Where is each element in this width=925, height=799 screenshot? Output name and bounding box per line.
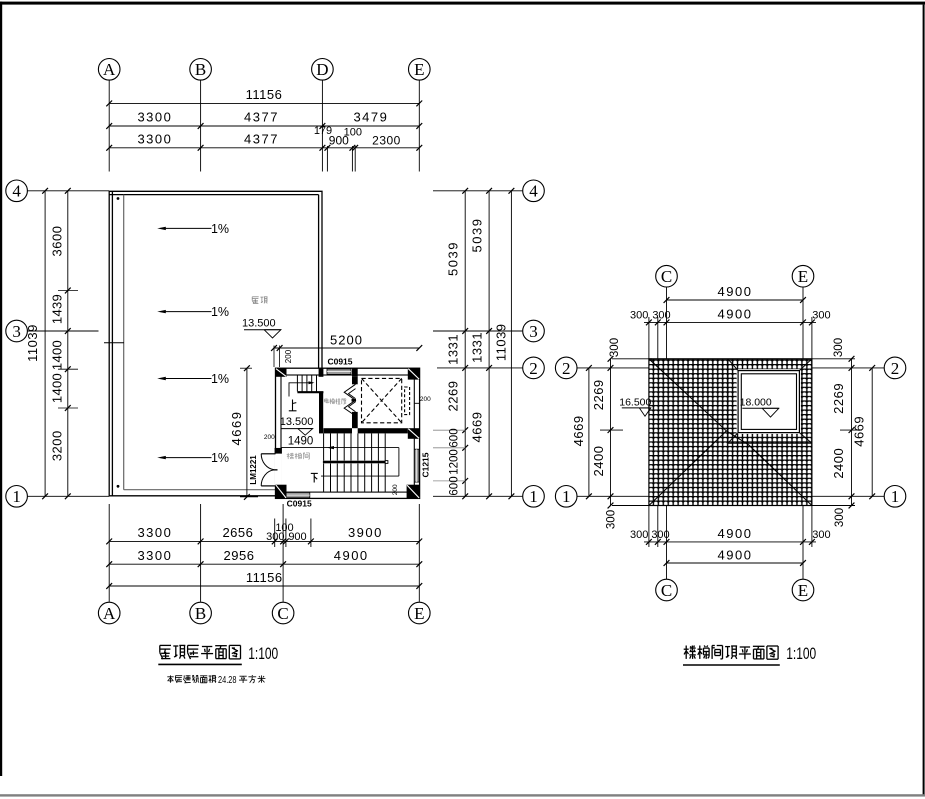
svg-text:4900: 4900 <box>718 306 753 321</box>
svg-text:300: 300 <box>834 508 846 527</box>
svg-text:1439: 1439 <box>50 294 65 324</box>
svg-text:11039: 11039 <box>494 323 509 361</box>
svg-text:E: E <box>414 60 424 79</box>
svg-text:600: 600 <box>449 428 461 447</box>
svg-text:1: 1 <box>891 487 900 506</box>
svg-text:1400: 1400 <box>50 340 65 370</box>
svg-text:900: 900 <box>329 134 349 148</box>
svg-text:1490: 1490 <box>288 436 314 448</box>
svg-text:24.28: 24.28 <box>218 674 237 686</box>
svg-text:300: 300 <box>630 529 648 541</box>
svg-text:300: 300 <box>609 338 621 357</box>
svg-text:E: E <box>798 581 808 600</box>
svg-text:1%: 1% <box>211 451 229 465</box>
svg-text:2956: 2956 <box>224 548 255 563</box>
svg-text:C: C <box>277 604 288 623</box>
svg-text:3300: 3300 <box>137 131 172 146</box>
svg-text:3300: 3300 <box>137 110 172 125</box>
svg-text:600: 600 <box>449 476 461 495</box>
svg-text:2269: 2269 <box>831 383 846 414</box>
svg-text:C: C <box>661 267 672 286</box>
svg-text:300: 300 <box>266 531 284 543</box>
svg-text:2400: 2400 <box>831 448 846 479</box>
svg-text:11039: 11039 <box>25 324 40 362</box>
svg-text:3600: 3600 <box>50 226 65 257</box>
svg-text:1200: 1200 <box>449 449 461 475</box>
svg-text:4669: 4669 <box>571 415 586 446</box>
svg-text:900: 900 <box>288 531 306 543</box>
svg-text:4900: 4900 <box>334 548 369 563</box>
svg-text:4377: 4377 <box>244 131 279 146</box>
svg-text:1: 1 <box>529 487 538 506</box>
svg-text::: : <box>215 674 218 684</box>
svg-text:11156: 11156 <box>246 570 283 585</box>
svg-text:B: B <box>195 60 206 79</box>
svg-text:300: 300 <box>812 309 830 321</box>
svg-text:2300: 2300 <box>372 134 401 148</box>
svg-text:1:100: 1:100 <box>786 644 816 663</box>
svg-text:200: 200 <box>284 349 293 363</box>
svg-text:3200: 3200 <box>50 430 65 461</box>
svg-text:4900: 4900 <box>718 284 753 299</box>
svg-text:3: 3 <box>12 322 21 341</box>
svg-text:300: 300 <box>812 529 830 541</box>
svg-text:2: 2 <box>562 359 571 378</box>
svg-text:5039: 5039 <box>469 218 484 253</box>
svg-text:300: 300 <box>833 338 845 357</box>
svg-text:C: C <box>661 581 672 600</box>
svg-text:200: 200 <box>264 434 275 441</box>
svg-text:300: 300 <box>630 309 648 321</box>
svg-text:5039: 5039 <box>446 241 461 276</box>
svg-text:4: 4 <box>529 182 538 201</box>
svg-text:4669: 4669 <box>469 412 484 443</box>
svg-text:E: E <box>798 267 808 286</box>
svg-text:1%: 1% <box>211 305 229 319</box>
svg-text:18.000: 18.000 <box>740 396 772 408</box>
svg-text:2269: 2269 <box>591 379 606 410</box>
svg-text:1:100: 1:100 <box>248 644 278 663</box>
svg-text:3300: 3300 <box>137 525 172 540</box>
svg-text:1%: 1% <box>211 372 229 386</box>
svg-text:11156: 11156 <box>246 87 283 102</box>
svg-text:16.500: 16.500 <box>619 396 651 408</box>
svg-text:C0915: C0915 <box>327 357 352 367</box>
svg-text:4900: 4900 <box>718 548 753 563</box>
svg-text:4900: 4900 <box>718 526 753 541</box>
svg-text:2656: 2656 <box>222 525 253 540</box>
svg-text:C1215: C1215 <box>421 452 431 477</box>
svg-text:1%: 1% <box>211 222 229 236</box>
svg-text:300: 300 <box>651 529 669 541</box>
svg-text:3479: 3479 <box>353 110 388 125</box>
svg-text:3900: 3900 <box>348 525 383 540</box>
svg-text:A: A <box>103 604 116 623</box>
svg-text:2: 2 <box>891 359 900 378</box>
svg-text:3300: 3300 <box>137 548 172 563</box>
svg-text:300: 300 <box>605 510 617 529</box>
svg-text:1: 1 <box>562 487 571 506</box>
svg-text:3: 3 <box>529 322 538 341</box>
svg-text:2269: 2269 <box>446 381 461 412</box>
svg-text:13.500: 13.500 <box>280 416 314 428</box>
svg-text:13.500: 13.500 <box>242 318 276 330</box>
svg-text:1331: 1331 <box>446 334 461 365</box>
svg-text:2: 2 <box>529 359 538 378</box>
svg-text:A: A <box>103 60 116 79</box>
svg-text:B: B <box>195 604 206 623</box>
svg-text:D: D <box>316 60 328 79</box>
svg-text:4: 4 <box>12 182 21 201</box>
svg-text:1: 1 <box>12 487 21 506</box>
svg-text:4377: 4377 <box>244 110 279 125</box>
svg-text:4669: 4669 <box>852 416 867 447</box>
svg-text:300: 300 <box>652 309 670 321</box>
svg-text:1331: 1331 <box>469 332 484 363</box>
svg-text:200: 200 <box>420 396 431 403</box>
svg-text:5200: 5200 <box>330 333 363 348</box>
svg-text:E: E <box>414 604 424 623</box>
svg-text:LM1221: LM1221 <box>249 455 258 485</box>
svg-text:4669: 4669 <box>229 411 244 446</box>
svg-text:200: 200 <box>392 484 399 495</box>
svg-text:1400: 1400 <box>50 373 65 403</box>
svg-text:2400: 2400 <box>591 446 606 477</box>
svg-text:C0915: C0915 <box>287 499 312 509</box>
